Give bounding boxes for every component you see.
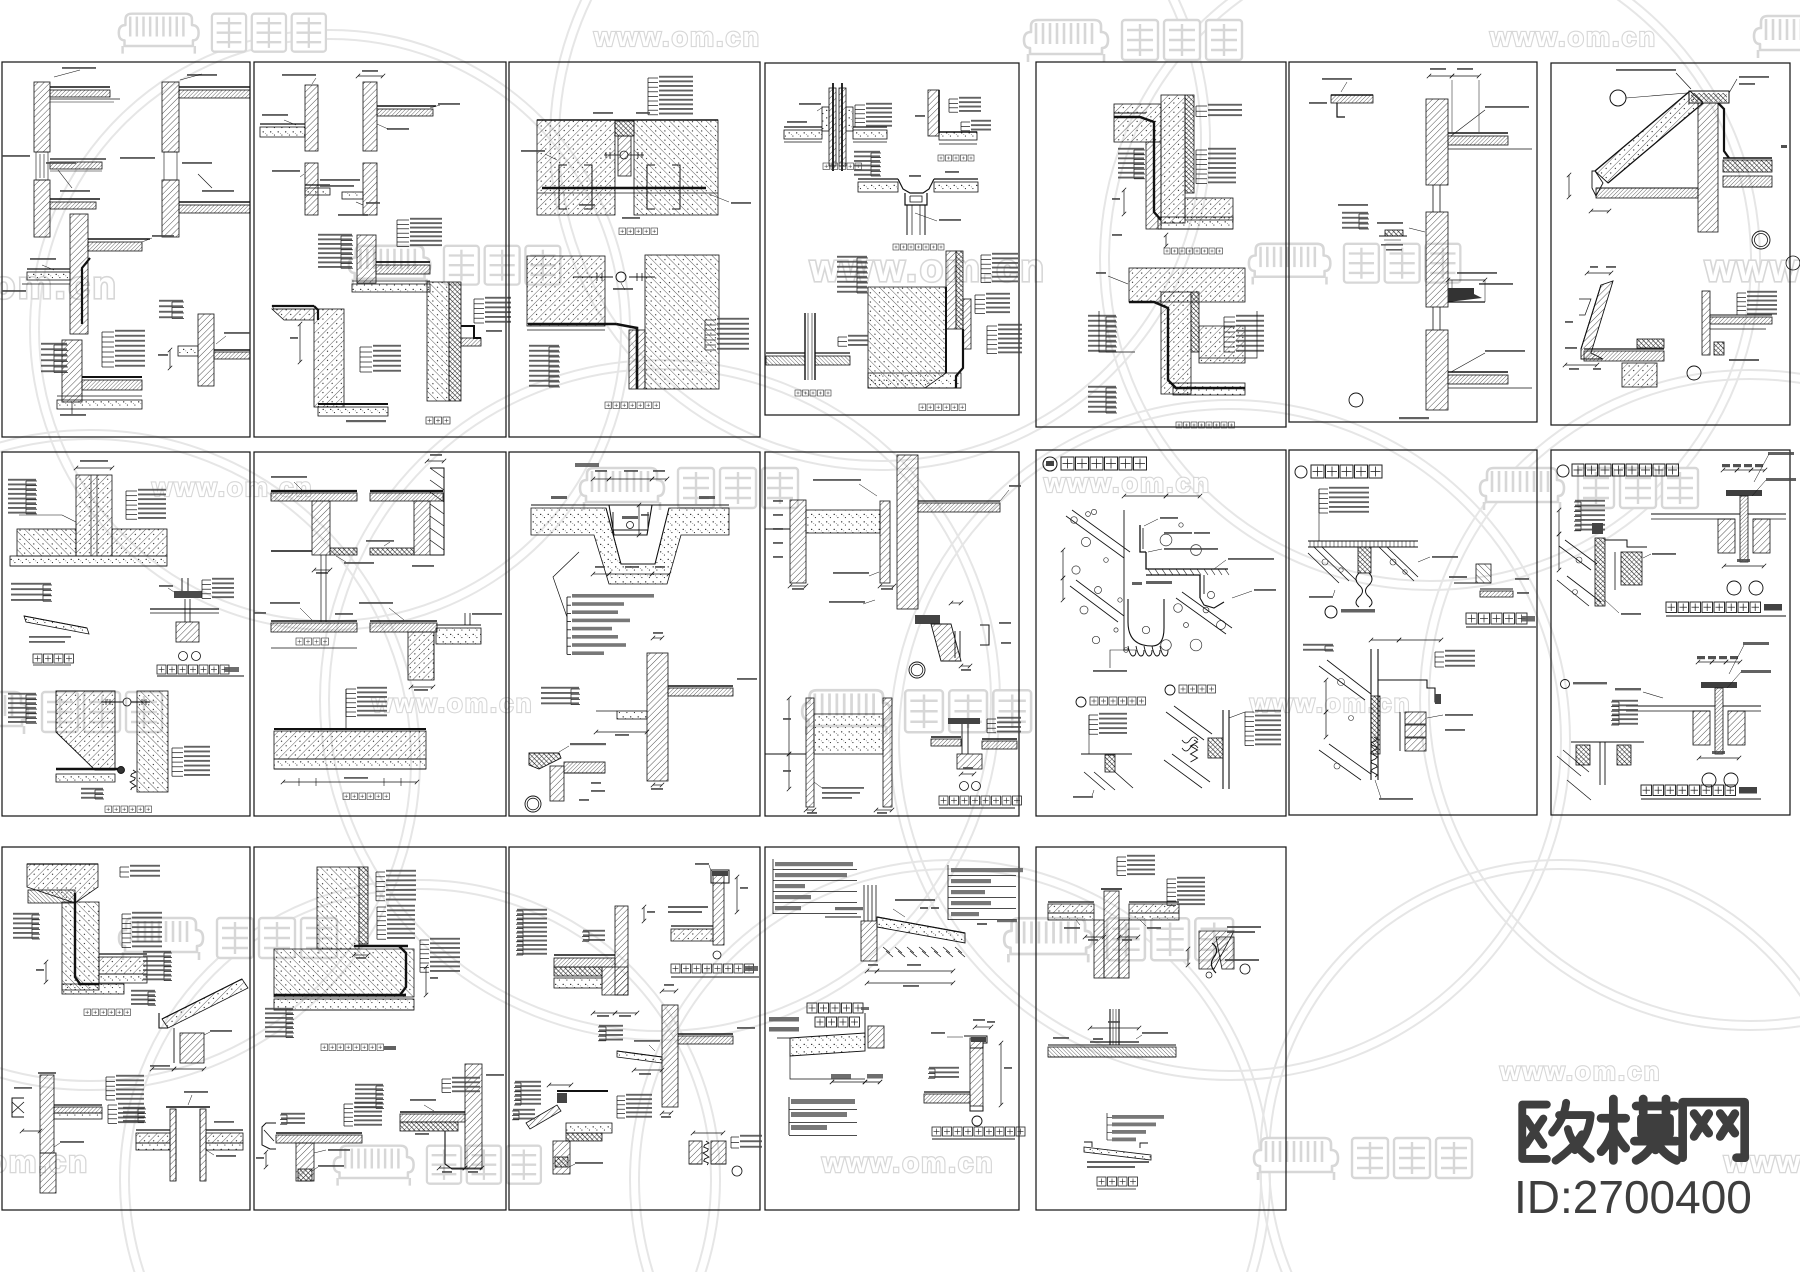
svg-text:www.om.cn: www.om.cn <box>1489 22 1657 52</box>
drain channel <box>609 505 652 535</box>
svg-text:www.om.cn: www.om.cn <box>1704 248 1800 290</box>
panel R2C4 border <box>765 452 1019 816</box>
bottom joint detail <box>527 256 605 326</box>
top basement corner <box>27 863 98 865</box>
left parapet joint <box>1580 502 1582 531</box>
aggregate circles <box>1071 517 1078 524</box>
panel R1C7 content <box>1563 69 1800 387</box>
corner wall detail <box>70 214 88 334</box>
parapet cap <box>1689 91 1729 103</box>
panel R2C6 border <box>1289 450 1537 815</box>
roof shaft bottom-right <box>166 1106 210 1108</box>
bottom right wall <box>647 653 668 781</box>
panel R1C7 border <box>1551 63 1790 425</box>
mid corner detail <box>357 235 376 283</box>
panel R3C5 content <box>1048 855 1261 1189</box>
central wall with pools <box>897 455 918 609</box>
second wall pair <box>305 163 318 215</box>
floor joint plan top <box>1308 540 1418 542</box>
svg-text:www.om.cn: www.om.cn <box>0 265 119 307</box>
lower Z wall detail <box>1129 268 1245 302</box>
panel R2C7 border <box>1551 450 1790 815</box>
eave gutter bottom-left <box>276 1132 362 1134</box>
panel R1C6 border <box>1289 62 1537 422</box>
panel R2C3 content <box>525 463 757 812</box>
panel R3C4 border <box>765 847 1019 1210</box>
panel R2C4 content <box>765 455 1022 814</box>
bottom-right small detail <box>198 314 214 386</box>
bottom-right wall detail <box>427 282 449 401</box>
roof joint detail upper right <box>1723 469 1737 471</box>
lower roof joint detail <box>1698 661 1712 663</box>
top wall pair <box>305 85 318 151</box>
pipe through floor <box>804 313 806 380</box>
floor level mid <box>271 620 357 622</box>
panel R3C1 content <box>12 864 248 1193</box>
upper Z wall detail <box>1114 95 1233 223</box>
big OM logo text <box>1522 1103 1590 1161</box>
rubber waterstop U <box>1128 599 1164 646</box>
parapet right <box>970 1038 983 1106</box>
panel R2C5 border <box>1036 450 1286 816</box>
gutter section <box>1581 281 1613 359</box>
retaining wall L <box>272 309 314 320</box>
panel R2C2 content <box>254 454 502 800</box>
panel R1C6 content <box>1309 68 1532 419</box>
watermark logos <box>119 14 326 54</box>
panel R3C3 content <box>512 863 762 1176</box>
panel R2C2 border <box>254 452 506 816</box>
parapet top-left <box>615 906 628 995</box>
top-right spec list <box>951 868 1023 872</box>
panel R1C1 border <box>2 62 250 437</box>
panel R1C4 border <box>765 63 1019 415</box>
title <box>1043 457 1057 471</box>
angle steel joint <box>1124 495 1166 497</box>
panel R1C2 content <box>260 70 511 424</box>
svg-text:www.om.cn: www.om.cn <box>821 1147 995 1178</box>
wide floor slab bottom <box>274 728 426 730</box>
panel R1C3 content <box>521 76 751 409</box>
bottom spec list big <box>791 1099 855 1104</box>
roof shaft top <box>1104 891 1119 978</box>
svg-text:www.om.cn: www.om.cn <box>1249 688 1412 718</box>
panel R3C1 border <box>2 847 250 1210</box>
wall hatch strip 2 <box>162 82 179 152</box>
pipe through wall <box>829 88 836 166</box>
roof joint detail <box>150 608 219 610</box>
ceiling band <box>1596 188 1698 198</box>
panel R3C2 content <box>256 867 504 1181</box>
panel R3C4 content <box>769 859 1025 1139</box>
L wall detail <box>928 90 939 136</box>
diagonal floor lines <box>1066 516 1124 558</box>
T wall-floor junction <box>76 475 112 556</box>
rain canopy detail right <box>1476 564 1491 583</box>
bottom parapet joint <box>1371 639 1399 641</box>
parapet cap top-right <box>713 872 724 945</box>
panel R2C1 border <box>2 452 250 816</box>
panel R2C1 content <box>8 460 244 813</box>
wall hatch strip <box>34 82 50 152</box>
svg-text:www.om.cn: www.om.cn <box>1043 468 1211 498</box>
panel R1C5 content <box>1088 95 1264 428</box>
panel R1C1 content <box>2 67 250 416</box>
window sill block <box>1448 288 1482 302</box>
mid-left pit edge <box>769 1017 799 1022</box>
panel R3C3 border <box>509 847 760 1210</box>
tall wall section <box>1426 99 1448 185</box>
title <box>1557 465 1569 477</box>
cornice bottom-left <box>557 1090 608 1092</box>
title <box>1295 466 1307 478</box>
big basement corner <box>317 867 359 949</box>
ramp section <box>835 907 863 910</box>
top slab with joint <box>537 119 718 121</box>
panel R2C3 border <box>509 452 760 816</box>
curb detail bottom-left <box>529 753 561 769</box>
sub detail 4 <box>1076 697 1086 707</box>
sill sub-cluster <box>1385 230 1403 236</box>
right roof deck <box>1723 160 1772 172</box>
small top-left detail <box>1331 94 1373 96</box>
parapet joint mid-right <box>915 615 940 624</box>
small parapet detail <box>1702 291 1710 355</box>
U pit bottom-left <box>806 698 814 807</box>
roof joint bottom-right <box>931 736 961 738</box>
panel R1C2 border <box>254 62 506 437</box>
scupper detail top-right <box>1199 931 1234 969</box>
window sill bottom-left <box>40 1075 54 1153</box>
svg-text:www.om.cn: www.om.cn <box>1499 1056 1662 1086</box>
panel R2C5 content <box>1043 457 1281 798</box>
parapet corner bottom-right <box>465 1064 482 1169</box>
sloped roof band <box>1595 91 1703 183</box>
bottom-left L wall detail <box>62 340 82 402</box>
ramp section bottom <box>1112 1115 1164 1119</box>
panel R2C6 content <box>1295 465 1536 800</box>
small bottom-left detail <box>1561 680 1570 689</box>
spec list <box>567 596 571 598</box>
joint plan bottom-right <box>689 1141 702 1164</box>
ceiling sections top <box>271 490 357 492</box>
top-left spec list <box>775 862 853 866</box>
sub detail 3 <box>1165 685 1175 695</box>
ramp section <box>24 616 89 634</box>
terrace wall mid-right <box>662 1005 678 1107</box>
svg-text:ID:2700400: ID:2700400 <box>1514 1171 1752 1223</box>
trench drain top <box>575 463 599 467</box>
panel R2C7 content <box>1557 452 1796 800</box>
eave canopy right <box>162 979 248 1028</box>
panel R3C2 border <box>254 847 506 1210</box>
panel R3C5 border <box>1036 847 1286 1210</box>
center wall <box>1698 103 1718 232</box>
panel R1C3 border <box>509 62 760 437</box>
panel R1C5 border <box>1036 62 1286 427</box>
panel R1C4 content <box>766 83 1022 411</box>
svg-text:www.om.cn: www.om.cn <box>593 22 761 52</box>
basement wall corner <box>946 251 956 329</box>
floor drain detail <box>858 182 898 192</box>
bottom corner joint <box>56 691 115 770</box>
pipe through slab mid <box>1109 1009 1111 1045</box>
